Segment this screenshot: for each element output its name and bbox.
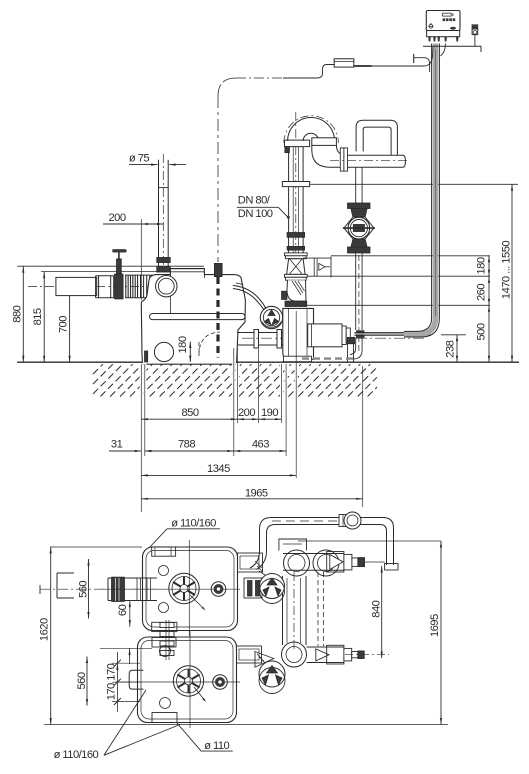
- svg-text:500: 500: [476, 323, 488, 340]
- tank inlet circle outer: [156, 276, 177, 297]
- lower botleft block: [152, 713, 177, 723]
- upper tail line: [365, 561, 385, 563]
- svg-text:840: 840: [370, 600, 382, 617]
- horiz discharge pipe: [348, 154, 404, 156]
- svg-text:700: 700: [58, 316, 70, 333]
- manifold pipes: [282, 576, 284, 645]
- control box knob: [429, 24, 433, 28]
- coupling band 1: [287, 233, 304, 238]
- upper reducer: [344, 554, 352, 570]
- ext casings: [140, 363, 143, 398]
- check valve body: [287, 259, 306, 275]
- loop pipe: [356, 120, 397, 155]
- control box display: [443, 13, 452, 16]
- pump foot: [347, 344, 349, 362]
- flange upper: [285, 140, 310, 147]
- upper valve block: [327, 552, 344, 573]
- gate valve body: [115, 274, 123, 299]
- lower dark tip: [358, 651, 364, 659]
- mounting rail: [423, 45, 481, 47]
- plan ref top left: [50, 546, 142, 548]
- sensor tube dashed: [216, 277, 219, 358]
- flange mid: [282, 182, 309, 187]
- mid flange stack: [160, 623, 174, 628]
- coupling band 2: [287, 247, 304, 251]
- ext 258: [258, 349, 260, 423]
- svg-text:200: 200: [108, 212, 125, 224]
- ext line 200: [140, 219, 142, 300]
- floor cable dashed: [302, 357, 356, 359]
- svg-text:788: 788: [178, 439, 195, 451]
- u-bend outer: [288, 118, 335, 142]
- inlet bracket: [56, 573, 58, 598]
- lower bolt circle top: [160, 646, 171, 657]
- dim 200b: [237, 418, 258, 420]
- vent pipe joint: [159, 187, 169, 189]
- svg-text:200: 200: [238, 407, 255, 419]
- discharge centerline: [295, 112, 297, 303]
- upper handwheel plan: [260, 574, 285, 599]
- dim 1620: [50, 547, 52, 725]
- vent valve lower pipe: [355, 253, 357, 330]
- volute internals: [288, 308, 290, 359]
- svg-text:815: 815: [32, 308, 44, 325]
- suction pipe: [237, 332, 283, 334]
- handwheel: [260, 306, 282, 328]
- dim 1345: [141, 474, 296, 476]
- ext 296: [295, 311, 297, 478]
- lower pipe band: [307, 646, 345, 648]
- plan vent circle: [344, 512, 361, 529]
- upper second circle: [313, 550, 339, 576]
- suction flange 2: [277, 330, 282, 349]
- inlet pipe: [56, 277, 97, 295]
- tank inlet circle inner: [158, 278, 174, 294]
- lower motor circle: [213, 675, 228, 690]
- dim 788: [145, 450, 234, 452]
- plan tank lower inner: [141, 641, 233, 720]
- svg-text:560: 560: [76, 672, 88, 689]
- svg-text:260: 260: [476, 284, 488, 301]
- ext mid pair: [233, 348, 235, 456]
- plan ref bottom: [44, 724, 448, 726]
- pump top flange: [285, 301, 307, 306]
- upper tank conn block: [238, 553, 263, 572]
- vent pipe coupling 2: [157, 267, 170, 273]
- dim 500: [488, 305, 490, 362]
- dim 850: [141, 418, 237, 420]
- svg-text:180: 180: [177, 336, 189, 353]
- dim 31: [109, 450, 141, 452]
- upper bolt circles: [159, 566, 169, 576]
- sensor dashdot vert: [217, 96, 219, 262]
- upper botleft block: [152, 622, 177, 631]
- dim 700: [69, 287, 71, 362]
- branch stub: [303, 257, 331, 259]
- lower valve cone: [316, 649, 329, 661]
- junction box: [334, 59, 354, 67]
- plan tank lower: [138, 637, 237, 723]
- manifold centerline: [293, 572, 295, 652]
- dim 190: [259, 418, 282, 420]
- gate valve handle: [112, 249, 126, 252]
- gland4 wire: [441, 44, 446, 57]
- lower tank conn block: [237, 646, 262, 663]
- ext 282 pair: [281, 364, 283, 423]
- vent pipe centerline: [162, 154, 164, 272]
- dim 560 upper: [88, 559, 90, 619]
- control box body: [426, 11, 460, 31]
- upper suction parts: [244, 578, 262, 598]
- dim 170 170: [116, 652, 118, 712]
- vent pipe foot: [350, 338, 362, 360]
- lower impeller: [173, 666, 203, 696]
- sensor dashdot corner: [218, 78, 236, 96]
- dim 180 tank: [189, 342, 191, 363]
- plan centerline h lower: [115, 681, 240, 683]
- tank outline: [141, 269, 245, 365]
- motor cylinder: [308, 324, 342, 347]
- dim 840: [381, 566, 383, 658]
- horiz pipe flange: [340, 148, 344, 171]
- inlet ribbed sleeve: [125, 275, 127, 298]
- ref line 180t: [331, 255, 490, 257]
- vent pipe walls: [158, 160, 160, 268]
- gate valve stem: [117, 259, 122, 274]
- tank inner dashed arc: [199, 332, 220, 355]
- lower bolt circles: [160, 646, 171, 657]
- lower handwheel plan: [259, 661, 285, 687]
- upper dark tip: [358, 558, 365, 567]
- plan vent collar: [339, 515, 353, 527]
- plan centerline v upper: [188, 540, 190, 636]
- svg-text:DN 100: DN 100: [238, 208, 273, 220]
- svg-text:238: 238: [444, 340, 456, 357]
- upper pipe band: [283, 553, 344, 555]
- lower rotation arrow: [194, 687, 205, 700]
- sensor hose: [233, 286, 266, 310]
- plan tank upper inner: [146, 551, 234, 628]
- plan loop hatch: [255, 561, 265, 575]
- svg-text:1620: 1620: [38, 618, 50, 641]
- ref line 500t: [307, 304, 490, 306]
- lower left knob: [129, 670, 143, 689]
- dim 260: [488, 276, 490, 305]
- tank drain circle: [154, 342, 173, 361]
- svg-text:1965: 1965: [245, 487, 268, 499]
- svg-text:ø 110/160: ø 110/160: [171, 517, 216, 529]
- suction centerline: [242, 337, 426, 339]
- bleed fitting: [285, 147, 290, 153]
- plan loop pipe: [250, 518, 394, 570]
- dim 880: [22, 266, 24, 362]
- svg-text:ø 110: ø 110: [204, 740, 229, 752]
- svg-text:560: 560: [77, 581, 89, 598]
- vent pipe coupling 1: [157, 258, 170, 263]
- floor line: [17, 361, 519, 363]
- vent pipe from discharge: [355, 167, 357, 203]
- dim 560 lower: [86, 657, 88, 706]
- left dashdot: [236, 77, 283, 79]
- tank anchor bolt: [145, 351, 148, 362]
- svg-text:ø 110/160: ø 110/160: [54, 749, 99, 761]
- plan loop dashes: [272, 520, 345, 522]
- dim 1470-1550: [511, 184, 513, 362]
- dim o75: [129, 164, 158, 166]
- ref line 815: [41, 271, 172, 273]
- dim 200 top: [103, 223, 163, 225]
- svg-text:880: 880: [11, 305, 23, 322]
- svg-text:ø 75: ø 75: [129, 153, 150, 165]
- u-bend dashed arc: [284, 116, 339, 143]
- plan tank upper: [143, 547, 238, 631]
- motor connector: [347, 337, 354, 343]
- upper bend corner: [279, 539, 307, 551]
- upper topleft block: [152, 547, 176, 556]
- pump volute: [283, 308, 314, 359]
- motor reducer: [342, 326, 346, 345]
- tank plateau edges: [169, 275, 171, 314]
- dim 1695: [440, 541, 442, 725]
- svg-text:1470 ... 1550: 1470 ... 1550: [501, 241, 513, 299]
- upper shaft: [352, 558, 358, 566]
- lower valve block: [327, 645, 344, 664]
- svg-text:DN 80/: DN 80/: [238, 195, 271, 207]
- elbow body: [287, 280, 306, 301]
- alarm line: [474, 35, 476, 47]
- svg-text:170 170: 170 170: [105, 663, 117, 700]
- upper bend circle: [284, 550, 310, 576]
- ext left pair: [140, 364, 142, 512]
- cable cross blob: [357, 331, 365, 338]
- upper motor circle: [211, 582, 226, 597]
- cable glands: [428, 37, 431, 42]
- dim 238: [456, 335, 458, 362]
- elbow nub: [282, 291, 287, 299]
- elbow to horizontal: [312, 145, 347, 167]
- vent valve: [348, 203, 371, 209]
- u-bend inner: [303, 133, 319, 141]
- flange wide 1: [285, 253, 308, 256]
- horiz pipe centerline: [330, 160, 408, 162]
- svg-text:1345: 1345: [207, 463, 230, 475]
- sensor fitting: [215, 264, 223, 277]
- plan ref top right: [298, 540, 441, 542]
- vent valve pipe dashed: [358, 255, 360, 352]
- ext 363: [362, 366, 364, 507]
- svg-text:1695: 1695: [429, 614, 441, 637]
- discharge pipe upper: [288, 143, 290, 233]
- flange wide 2: [285, 274, 308, 277]
- svg-text:180: 180: [476, 257, 488, 274]
- ground hatching: [93, 364, 377, 396]
- inlet coupling: [95, 276, 97, 298]
- svg-text:850: 850: [181, 407, 198, 419]
- conduit tee: [413, 54, 415, 63]
- ref line 260t: [331, 275, 490, 277]
- lower bend circle: [282, 642, 307, 667]
- plan centerline v lower: [189, 631, 191, 728]
- ref line 880: [17, 265, 204, 267]
- tank rib: [150, 314, 246, 320]
- dim aux arrow: [129, 648, 131, 664]
- hidden pipes dashed: [317, 572, 319, 646]
- svg-text:60: 60: [117, 604, 129, 616]
- plan inlet centerline: [40, 588, 162, 590]
- svg-text:190: 190: [261, 407, 278, 419]
- loop foot block: [385, 564, 398, 571]
- box left wire: [283, 65, 334, 79]
- dim 463: [234, 450, 286, 452]
- upper rotation arrow: [190, 595, 204, 609]
- upper inlet coupling: [108, 577, 157, 579]
- svg-text:31: 31: [111, 438, 123, 450]
- u-bend right flange: [312, 138, 337, 146]
- dim 1965: [141, 498, 362, 500]
- control box logo: [450, 27, 456, 30]
- wire to box: [354, 65, 372, 67]
- plan centerline h upper: [100, 588, 240, 590]
- upper impeller: [169, 573, 199, 603]
- dim 60: [129, 600, 131, 627]
- motor cable: [355, 332, 432, 334]
- dim 815: [43, 272, 45, 363]
- ref line 1470: [310, 183, 518, 185]
- lower topleft block: [152, 638, 176, 648]
- alarm device: [472, 25, 478, 35]
- dim 180: [488, 256, 490, 276]
- pipe seg mid: [288, 237, 290, 253]
- lower shaft: [352, 652, 358, 658]
- cable drop: [404, 44, 436, 335]
- control box bottom strip: [427, 31, 460, 37]
- lower reducer: [344, 648, 352, 661]
- svg-text:463: 463: [252, 439, 269, 451]
- suction flange 1: [254, 330, 259, 349]
- control box buttons: [443, 18, 446, 21]
- lower suction cone: [255, 652, 274, 668]
- tank top plateau: [170, 268, 204, 270]
- inlet centerline: [28, 286, 240, 288]
- ref line 238t: [441, 334, 466, 336]
- upper valve cone: [330, 555, 343, 570]
- lower tail centerline: [345, 654, 389, 656]
